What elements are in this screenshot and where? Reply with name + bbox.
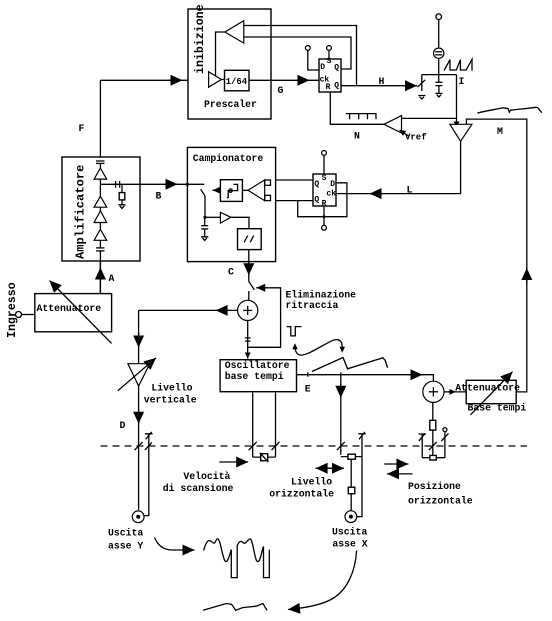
feedback wire from Q [244,37,351,69]
wire B [100,183,204,185]
inhibition wire [216,32,225,76]
input terminal [16,312,22,318]
wire D [138,386,140,510]
U1 S terminal [327,46,332,51]
junction B entry [186,183,189,186]
schmitt trigger U5 [220,180,242,202]
velocity arrow [219,461,248,463]
amp stage 4 [94,229,107,240]
wire G [249,79,319,81]
panel slashes velocity [249,442,257,450]
flip-flop U1 [319,59,341,92]
svg-text:L: L [407,184,413,195]
junction ticks on E [307,372,309,376]
svg-text:F: F [79,123,85,134]
svg-text:di scansione: di scansione [163,483,234,494]
svg-text:Attenuatore: Attenuatore [455,382,520,393]
wire A [99,261,101,294]
svg-text:Posizione: Posizione [408,481,461,492]
curved pulse-to-ramp arrow [295,340,342,356]
U6 input stubs [265,180,271,185]
ramp supply terminal [436,14,442,20]
amp stage 2 [94,196,107,207]
ramp capacitor [435,81,442,83]
svg-text:Velocità: Velocità [183,471,230,482]
timebase attenuator box [466,380,516,403]
sampler box [187,147,275,261]
svg-text:asse Y: asse Y [108,540,143,551]
sawtooth icon fast [444,59,472,70]
X wiper line [357,432,366,517]
sawtooth icon E [312,358,388,372]
blanking pulse icon [287,327,302,336]
ramp output wire [456,75,458,128]
wire S1 to oscillator [247,321,249,359]
svg-text:D: D [330,180,335,189]
svg-text:Livello: Livello [291,477,332,488]
hold buffer U7 [220,212,231,223]
wire F [99,80,101,157]
retrace switch [248,281,254,290]
svg-text:Q: Q [314,180,319,189]
svg-text:N: N [354,131,360,142]
svg-text:Uscita: Uscita [108,527,143,538]
wire H [341,85,417,87]
prescaler box [188,9,271,119]
divider 1/64 [225,70,250,91]
position arrows [384,463,408,465]
panel dashed line [101,445,528,447]
svg-text:Attenuatore: Attenuatore [37,303,102,314]
amplifier internal chain [96,161,105,294]
junction R [323,215,326,218]
svg-text:Q: Q [334,81,339,90]
timebase attenuator arrow [471,372,513,415]
capacitor on B wire [115,181,117,188]
prescaler buffer [209,72,222,88]
wire L [336,141,461,193]
hold capacitor [201,225,208,227]
horizontal level arrows [326,467,344,469]
svg-text:Livello: Livello [151,383,192,394]
svg-text:asse X: asse X [332,539,367,550]
U4 Qbar wire [271,200,314,202]
svg-text:Amplificatore: Amplificatore [74,165,88,259]
svg-text:Campionatore: Campionatore [193,153,264,164]
U1 reset wire from comparator [330,92,384,124]
svg-text:C: C [228,266,234,277]
U4 toggle feedback [298,183,347,217]
X middle line [350,459,352,487]
amp stage 3 [94,211,107,223]
wire M [466,119,526,392]
svg-text:H: H [379,76,385,87]
wire input to attenuator [22,314,35,316]
X output terminal [345,511,357,523]
svg-text:Eliminazione: Eliminazione [286,289,357,300]
discharge switch [421,75,423,91]
current source [434,48,444,58]
svg-text:ritraccia: ritraccia [286,300,339,311]
svg-text:1/64: 1/64 [226,77,248,87]
svg-text:orizzontale: orizzontale [408,495,473,506]
Y output terminal [132,511,144,523]
svg-text:orizzontale: orizzontale [269,488,334,499]
retrace wire [248,288,281,348]
sampling comb icon [346,114,377,120]
svg-text:B: B [156,191,162,202]
svg-text:verticale: verticale [144,394,197,405]
svg-text:Oscillatore: Oscillatore [225,360,290,371]
wire to delay [231,217,249,228]
ramp node [422,74,457,76]
svg-text:Vref: Vref [405,132,427,142]
position pot center line [432,402,434,420]
attenuator variable arrow [50,281,112,344]
wire B inside sampler [187,183,204,185]
X sawtooth squiggle [203,604,267,611]
slow ramp squiggle [477,107,541,113]
svg-text:Ingresso: Ingresso [6,282,19,338]
comparator U2 [384,116,402,133]
svg-text:E: E [305,384,311,395]
sampling switch [201,189,205,196]
X pot track [341,456,362,458]
svg-text:M: M [497,126,503,137]
comparator U6 [248,180,265,201]
svg-text:base tempi: base tempi [225,371,284,382]
X curved arrow [288,551,357,610]
delay block [238,229,262,250]
svg-text:G: G [278,85,284,96]
velocity trimmer [253,456,276,458]
svg-text:inibizione: inibizione [194,4,207,74]
svg-text:ck: ck [326,189,336,198]
svg-text:D: D [120,420,126,431]
horizontal level wire [340,375,342,455]
panel slash Y [135,442,143,450]
vertical level attenuator [128,364,150,386]
svg-text:I: I [459,76,465,87]
resistor to ground on B [121,184,123,192]
Y wiper line [144,432,152,516]
wire to vertical level [139,309,238,311]
svg-text:Prescaler: Prescaler [204,99,257,110]
summing node S1 [238,300,258,320]
attenuator box (input) [35,294,112,332]
svg-text:Uscita: Uscita [332,526,367,537]
Y waveform [204,539,270,578]
wire S2 to attenuator [444,391,466,393]
Vref arrow [400,130,409,136]
hold node [203,216,206,219]
retrace control arrow [256,287,266,289]
amplifier box [62,157,140,261]
U4 Q wire [271,179,314,181]
switch control arrow [213,189,221,191]
wire E [297,375,434,382]
svg-text:Q: Q [314,195,319,204]
oscillator box [220,360,296,392]
svg-text:A: A [109,273,115,284]
flip-flop U4 [313,174,336,206]
U4 S terminal [322,151,327,156]
wire C [248,250,250,281]
panel slash X [337,442,345,450]
svg-text:Q: Q [334,63,339,72]
summing node S2 [423,381,444,402]
U4 R terminal [323,206,325,225]
svg-text:S: S [322,174,327,183]
position pot frame [422,457,445,459]
inhibition amplifier [225,21,244,43]
U1 D terminal [305,46,310,51]
feedback wire from H node [244,26,357,86]
svg-text:D: D [320,63,325,72]
vertical level control wire [138,310,140,363]
velocity control wires [252,392,254,457]
svg-text:R: R [326,83,331,92]
amp stage 1 [94,168,107,179]
strobe buffer U3 [450,124,472,141]
comparator input wire [402,117,457,119]
curved arrow to Y waveform [155,538,195,551]
